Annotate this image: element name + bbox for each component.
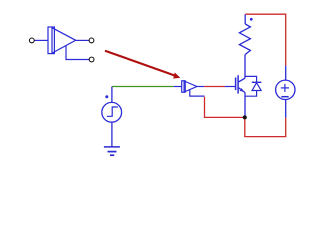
ground: [104, 147, 120, 155]
A1 input terminal circle: [29, 38, 34, 43]
wire: bottom return rail (red): [245, 117, 286, 136]
resistor R1: [239, 14, 250, 78]
V1 bottom lead: [111, 123, 113, 147]
A1 pin2 terminal circle: [89, 57, 94, 62]
wire: net IN (green): [112, 86, 174, 88]
Q1 body bar: [237, 75, 239, 93]
R1 bottom lead / Q1 collector vertical: [244, 55, 246, 79]
V2 plus sign: [281, 87, 289, 89]
A1 output wire: [76, 39, 89, 41]
wire: U1 out to Q1 gate (red): [204, 86, 225, 88]
pulse source V1: [102, 87, 122, 147]
D1 triangle: [252, 83, 261, 91]
D1 top link: [245, 76, 257, 82]
V1 step waveform glyph: [107, 107, 118, 116]
Q1 collector diagonal: [238, 78, 245, 82]
Q1 emitter diagonal: [238, 88, 245, 93]
wire: top supply rail (red): [245, 14, 285, 65]
A1 output terminal circle: [89, 38, 94, 43]
V1 circle: [102, 102, 122, 122]
U1 input pin stub: [174, 86, 182, 88]
V2 minus sign: [281, 96, 288, 98]
U1 pin2 stub down: [190, 90, 205, 97]
D1 bottom link: [245, 91, 257, 97]
A1 input wire: [34, 39, 48, 41]
buffer U1: [174, 81, 205, 96]
Q1 gate bar: [235, 78, 237, 91]
V1 plus polarity dot: [105, 95, 108, 98]
V2 circle: [276, 80, 295, 99]
buffer symbol A1 (library symbol, top-left): [34, 27, 89, 60]
transistor Q1 (IGBT with gate): [225, 75, 245, 93]
U1 body triangle: [184, 81, 197, 92]
U1 body rectangle: [182, 81, 186, 92]
R1 polarity dot: [250, 18, 253, 21]
V2 top pin stub: [285, 66, 287, 81]
A1 body triangle: [52, 28, 76, 53]
A1 body rectangle: [48, 27, 54, 54]
V1 top lead: [111, 87, 113, 103]
Q1 gate pin stub: [225, 86, 235, 88]
R1 zigzag: [239, 24, 250, 55]
wire: U1 pin2 down to source rail (red): [205, 97, 245, 118]
source V2 (DC): [276, 66, 295, 118]
A1 pin2 wire down: [66, 46, 89, 60]
U1 output pin stub: [197, 86, 204, 88]
D1 cathode bar: [252, 81, 262, 83]
annotation arrow: [105, 51, 180, 79]
node junction dot: [243, 115, 247, 119]
R1 top lead: [244, 14, 246, 24]
diode D1 (freewheeling, antiparallel): [245, 76, 261, 96]
V2 bottom pin stub: [285, 100, 287, 118]
Q1 emitter arrowhead: [240, 88, 244, 92]
Q1 emitter vertical to node: [244, 93, 246, 118]
